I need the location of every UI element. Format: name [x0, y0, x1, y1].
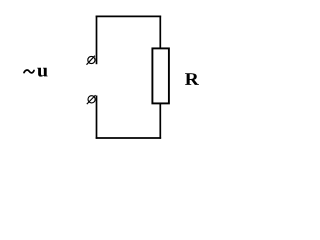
- terminal upper (circle with slash): [87, 56, 96, 65]
- wire right lower vertical: [159, 103, 161, 139]
- wire left upper vertical: [96, 16, 98, 65]
- label u (voltage): [37, 68, 47, 77]
- label R (resistor): [185, 73, 199, 85]
- label ~ (AC source tilde): [24, 70, 34, 73]
- resistor R: [152, 48, 169, 103]
- wire top horizontal: [96, 15, 161, 17]
- wire bottom horizontal: [96, 137, 161, 139]
- terminal lower (circle with slash): [87, 95, 96, 104]
- wire left lower vertical: [96, 96, 98, 139]
- wire right upper vertical: [159, 16, 161, 49]
